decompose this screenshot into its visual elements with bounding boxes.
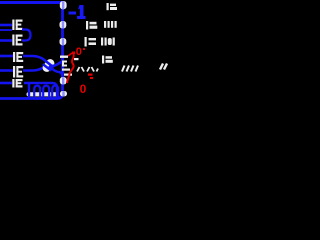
connector symbol G4 row4 [13, 66, 23, 78]
coil arch 2 [43, 86, 49, 98]
coil arch 1 [34, 86, 40, 98]
connector symbol G5 row5 [12, 79, 22, 88]
node pill P5 at bus bottom [60, 91, 67, 96]
node pill P1 top corner junction [60, 1, 67, 9]
probe glyph G8 "1=" row y=37 [85, 37, 97, 47]
label -1 (blue net value) [69, 5, 86, 19]
twisted pair marker pill [40, 57, 57, 75]
coil arch 3 [52, 86, 58, 98]
svg-text:0: 0 [76, 46, 82, 58]
wire W2 main vertical bus with bottom elbow to left rail [0, 3, 63, 99]
wire W7 input stub row4 to twist lower input [0, 69, 13, 72]
slash pair marker M2 [131, 66, 138, 72]
probe glyph at top y=3 "IC" [107, 3, 118, 10]
red dashes above R2 [88, 74, 93, 76]
wire twist upper lead [23, 56, 51, 67]
coil left drop wire [28, 84, 30, 98]
wire W3 input stub row1 [0, 24, 12, 27]
connector symbol G1 row1 [12, 20, 22, 31]
wire W4 thin stub under row1 [0, 29, 12, 31]
wire W6 input stub row3 to twist upper input [0, 55, 13, 58]
wire W5 input stub row2 [0, 39, 12, 42]
red tick left of R1 [68, 53, 72, 56]
wire U-hook from row1 to row2 [22, 30, 31, 41]
svg-text:0: 0 [80, 82, 87, 96]
wire W1 top horizontal bus [0, 1, 62, 4]
red squiggle strip R3 [67, 53, 74, 84]
probe glyph G10 "IC" row y=55 [102, 56, 113, 64]
wire twist lower lead [23, 60, 51, 71]
white bar above AV row [74, 58, 79, 60]
wire twist output to vertical bus [50, 62, 62, 67]
node pill P3 on vertical bus [60, 38, 67, 45]
slash pair marker M1 [122, 66, 129, 72]
probe glyph G7 bars row y=21 [104, 21, 117, 28]
tick marks row (AV AV) [77, 67, 98, 72]
wire row5 run to down elbow [24, 83, 57, 93]
splitter white bar across coil legs [27, 92, 60, 96]
row5 drop through splitter bar [56, 88, 58, 98]
red dot atop squiggle [72, 52, 75, 55]
node pill P4 on vertical bus [60, 77, 67, 84]
connector symbol G3 row3 [13, 52, 23, 62]
wire W9 input stub row5 [0, 82, 12, 85]
red pixel under G8 [83, 48, 85, 50]
probe glyph G6 "IC" row y=21 [86, 21, 97, 30]
slash marker M3 [160, 64, 167, 70]
component cluster C1 white bars on bus [60, 56, 72, 76]
connector symbol G2 row2 [12, 35, 22, 46]
probe glyph G9 bars row y=37 [101, 38, 115, 46]
node pill P2 on vertical bus [60, 21, 67, 28]
